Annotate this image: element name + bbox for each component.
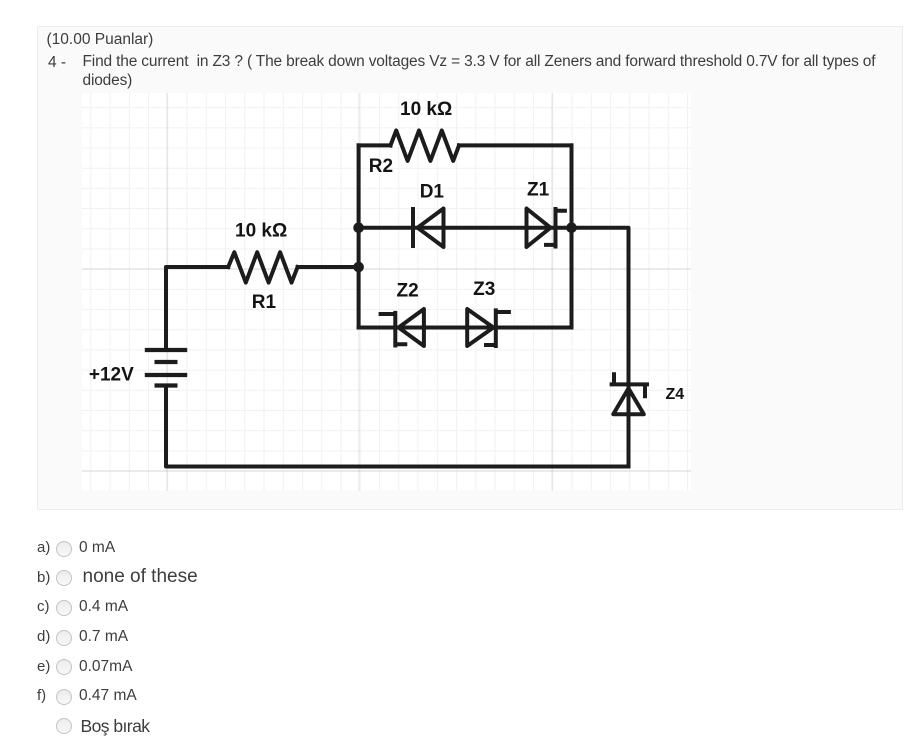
- wire R1 right terminal to node A: [298, 265, 359, 269]
- wire bottom return to battery negative: [166, 386, 629, 467]
- battery V1 plate long top: [147, 348, 185, 352]
- wire middle branch: [359, 226, 572, 230]
- zener Z2 triangle: [399, 309, 424, 346]
- svg-text:Z2: Z2: [397, 281, 419, 302]
- node A junction R1/ladder: [353, 262, 364, 273]
- svg-text:Z1: Z1: [527, 180, 550, 201]
- wire node B to Z4 and down: [572, 228, 629, 467]
- zener Z1 triangle: [527, 209, 551, 248]
- svg-text:R2: R2: [369, 156, 393, 177]
- svg-text:Z4: Z4: [666, 386, 685, 403]
- svg-text:R1: R1: [252, 292, 277, 313]
- zener Z4 triangle: [613, 388, 644, 414]
- node C junction middle branch left: [353, 222, 364, 233]
- resistor R2: [391, 131, 460, 161]
- wire top branch left segment: [359, 143, 391, 147]
- wire battery positive to R1 left terminal: [166, 267, 228, 350]
- battery V1 plate short bottom: [157, 383, 176, 387]
- svg-text:10 kΩ: 10 kΩ: [235, 221, 287, 242]
- svg-text:+12V: +12V: [89, 365, 134, 386]
- svg-text:D1: D1: [420, 182, 445, 203]
- zener Z3 triangle: [467, 309, 493, 346]
- wire ladder right vertical: [570, 145, 574, 327]
- wire bottom branch: [359, 326, 572, 330]
- zener Z3 bar with hooks: [486, 310, 509, 346]
- wire top branch right segment: [459, 143, 572, 147]
- svg-text:Z3: Z3: [473, 279, 495, 300]
- zener Z2 bar with hooks: [381, 313, 406, 346]
- battery V1 plate short: [157, 360, 176, 364]
- diode D1 cathode bar: [411, 209, 415, 246]
- wire ladder left vertical: [357, 145, 361, 327]
- zener Z4 bar with hooks: [612, 374, 647, 396]
- diode D1 triangle: [418, 209, 444, 248]
- resistor R1: [228, 252, 297, 282]
- svg-text:10 kΩ: 10 kΩ: [400, 99, 452, 120]
- battery V1 plate long: [147, 373, 185, 377]
- node B junction middle branch right: [566, 222, 577, 233]
- zener Z1 bar with hooks: [546, 209, 565, 247]
